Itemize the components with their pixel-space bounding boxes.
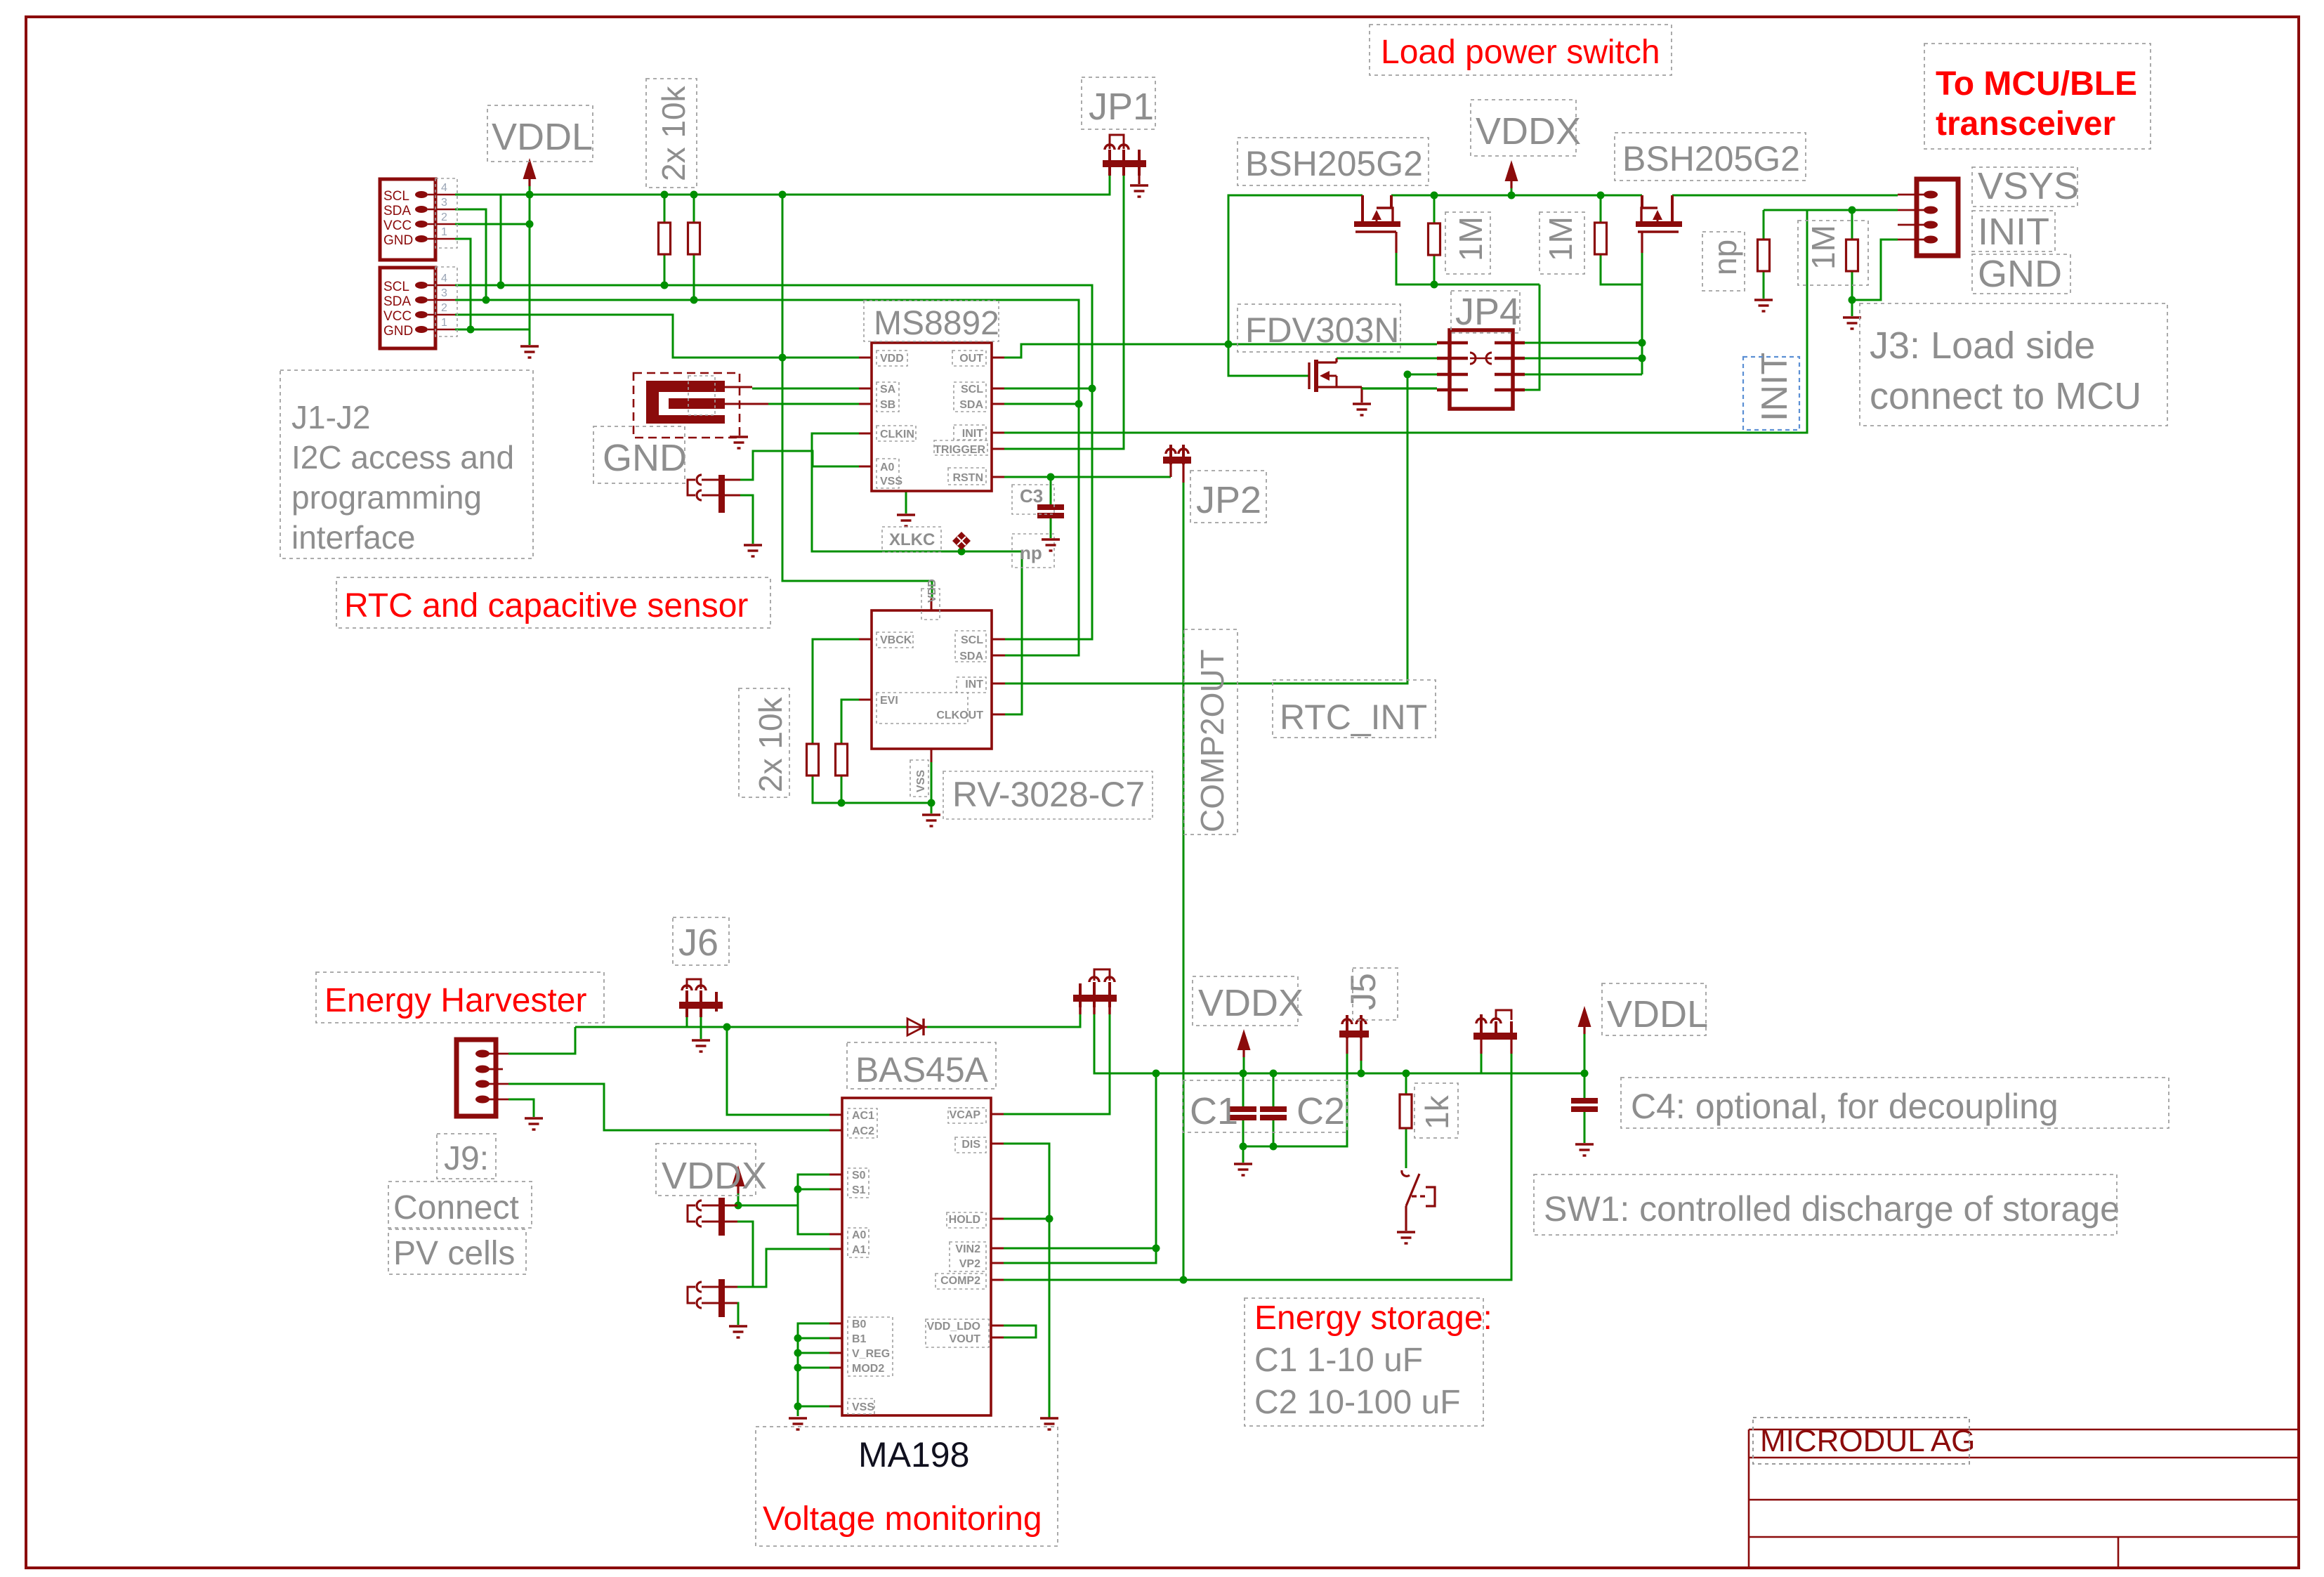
label 2x 10k RTC [739,688,789,797]
svg-text:PV cells: PV cells [393,1235,515,1272]
net flag XLKC diamond [882,527,971,552]
svg-text:Load power switch: Load power switch [1381,34,1660,71]
svg-text:INIT: INIT [962,428,983,440]
wire C2 bottom lead [1273,1118,1275,1146]
wire 1k top lead [1405,1073,1407,1094]
svg-text:1: 1 [441,317,447,329]
svg-text:JP4: JP4 [1455,291,1521,333]
wire VDDX arrow 3 stem [1243,1053,1245,1073]
svg-text:np: np [1020,542,1042,563]
svg-text:VDDL: VDDL [1607,993,1708,1035]
svg-text:VOUT: VOUT [950,1333,981,1345]
svg-text:VCC: VCC [383,309,412,324]
svg-text:SW1: controlled discharge of s: SW1: controlled discharge of storage [1544,1189,2120,1229]
svg-text:2x 10k: 2x 10k [752,696,789,792]
wire sensor SA to MS8892 SA [752,388,859,390]
svg-text:VBCK: VBCK [880,634,912,646]
wire C1 bottom lead [1242,1118,1245,1163]
label COMP2OUT [1184,629,1238,835]
svg-text:interface: interface [291,519,415,556]
wire MA198 MOD2 stub [798,1367,829,1369]
wire 1k bottom to SW1 [1405,1128,1407,1168]
label J1-J2 I2C access [280,370,533,558]
svg-text:1k: 1k [1419,1094,1455,1130]
svg-text:SDA: SDA [959,650,983,662]
wire C2 top lead [1273,1073,1275,1106]
wire VP2 tie to VIN2 [1004,1248,1156,1263]
label VDDL right [1602,983,1708,1035]
capacitor C3 [1012,485,1064,568]
label Load power switch [1370,25,1672,75]
wire MS8892 SCL stub [1004,388,1092,390]
jumper JP1 [1103,135,1146,184]
svg-text:programming: programming [291,479,482,516]
wire 1M R6 bottom to BSH2 gate vertical [1601,254,1642,284]
svg-text:V_REG: V_REG [852,1348,890,1360]
wire jumper JH right leg to MA198 VCAP [1004,1012,1110,1114]
wire J9 pin4 to ground [508,1099,534,1117]
svg-text:J5: J5 [1344,973,1383,1010]
ground JP1 [1130,185,1148,197]
wire C3 bottom lead [1050,517,1052,538]
svg-text:RSTN: RSTN [952,472,983,484]
resistor R7 np [1758,240,1770,271]
jumper J7 solder jumper [688,475,725,513]
svg-text:1M: 1M [1452,216,1489,261]
label VDDX storage [1193,976,1304,1026]
ground VDDL rail [520,346,539,358]
label np resistor [1702,232,1745,291]
supply arrow VDDX storage [1238,1029,1251,1057]
svg-text:J9:: J9: [444,1140,489,1177]
label C4 optional for decoupling [1621,1078,2169,1128]
svg-text:transceiver: transceiver [1936,105,2115,143]
wire RV-3028 EVI to 10k R4 [841,700,859,744]
label INIT J3 [1972,211,2055,253]
wire MS8892 VDD riser down to RV-3028 VDD [782,195,932,598]
wire 10k R2 bottom to SDA row [693,254,695,300]
wire 10k R1 top to VDDL rail [664,195,666,223]
wire MA198 VDD_LDO VOUT loop [1004,1326,1036,1337]
svg-text:2: 2 [441,211,447,223]
wire RV VSS stub to ground [931,762,933,813]
svg-text:VDDX: VDDX [1476,110,1581,152]
label J9 Connect PV cells [388,1134,532,1274]
wire J6 mid leg to ground [700,1017,702,1039]
wire 10k bottoms rail to RV VSS [813,776,931,803]
svg-text:JP2: JP2 [1196,479,1261,521]
wire MS8892 A0 to jumper [740,451,859,480]
wire 1M R6 top lead [1600,195,1602,223]
label 1k [1414,1083,1458,1138]
wire J1 VCC to VDDL vertical [455,223,530,225]
wire VDDL rail J1 pin4 to JP1 [455,174,1110,195]
label JP2 [1190,471,1266,523]
svg-text:RV-3028-C7: RV-3028-C7 [952,775,1145,814]
wire JP4 pin4 right [1525,358,1642,360]
supply arrow VDDX bottom left [732,1165,745,1193]
wire MS8892 TRIGGER up to JP1 pin2 [1004,174,1124,449]
ground FDV303N source [1353,404,1371,415]
wire jumper JH mid leg to VDDX bus [1094,1012,1584,1073]
transistor Q1 BSH205G2 [1354,195,1400,253]
wire 10k R2 top to VDDL rail [693,195,695,223]
connector J3 [1898,179,1958,256]
wire jumper JA pin2 link down [724,1222,753,1287]
ground MS8892 VSS [897,515,915,526]
title block [1749,1429,2297,1567]
jumper JP4 [1437,330,1525,409]
svg-text:VIN2: VIN2 [955,1243,980,1255]
label FDV303N [1238,304,1400,352]
IC U2 RV-3028-C7 [859,579,1005,797]
svg-text:1M: 1M [1805,225,1842,270]
wire J9 pin1 up to harvester row [508,1027,575,1054]
label C1 C2 [1183,1080,1347,1132]
svg-text:VDDX: VDDX [662,1155,767,1197]
wire diode cathode to J6b jumper pin1 [927,1012,1080,1027]
jumper J7 pin stubs [725,480,740,495]
wire VDDL2 arrow stem [1584,1034,1586,1073]
resistor R2 10k [688,223,700,254]
capacitor C2 [1260,1109,1287,1118]
ground J12 [729,1326,747,1337]
svg-text:MICRODUL AG: MICRODUL AG [1760,1424,1975,1458]
svg-text:BAS45A: BAS45A [855,1050,989,1089]
wire J2 GND row to ground [455,329,530,331]
svg-text:C4: optional, for decoupling: C4: optional, for decoupling [1631,1087,2059,1126]
label BAS45A [847,1042,996,1089]
label BSH205G2 first [1238,138,1429,185]
wire VDDL vertical to ground [529,179,531,345]
svg-text:COMP2OUT: COMP2OUT [1194,649,1230,832]
svg-text:SB: SB [880,399,895,411]
supply arrow VDDL right [1578,1006,1591,1034]
wire jumper JB pin2 to ground [724,1303,738,1325]
ground J9 pin4 [525,1118,543,1130]
svg-text:B0: B0 [852,1318,867,1330]
wire 1M R7 top lead from INIT [1851,210,1853,240]
label VDDL [487,105,593,162]
capacitive sensor electrode [633,373,768,438]
ground SW1 [1397,1232,1415,1243]
label J6 [673,917,729,965]
label JP1 [1082,77,1155,129]
svg-text:C1 1-10 uF: C1 1-10 uF [1254,1342,1423,1379]
svg-text:GND: GND [383,233,413,248]
wire RV-3028 INT RTC_INT run [1005,374,1437,683]
svg-text:RTC_INT: RTC_INT [1280,698,1427,737]
svg-text:VDD: VDD [880,353,904,365]
IC U1 MS8892 [859,343,1004,491]
svg-text:Energy Harvester: Energy Harvester [324,982,586,1019]
svg-text:SDA: SDA [383,294,411,309]
label J3 Load side connect to MCU [1860,303,2167,426]
net label INIT vertical [1743,353,1799,430]
wire VDDX arrow stem to rail [1511,188,1513,195]
svg-text:Energy storage:: Energy storage: [1254,1300,1492,1337]
ground jumper J7 [744,545,762,556]
wire MA198 AC1 up to harvester row [727,1027,829,1115]
wire MA198 HOLD stub [1004,1218,1049,1220]
resistor R8 1M [1846,240,1858,271]
wire BSH1 drain rail left segment [1228,195,1363,376]
svg-text:INIT: INIT [1754,353,1795,421]
resistor R4 10k [836,744,848,776]
diode D1 BAS45A [906,1019,927,1035]
wire jumper JB pin1 to MA198 A1 [724,1249,829,1287]
svg-text:CLKIN: CLKIN [880,428,914,440]
label MA198 name [756,1427,1058,1546]
jumper J5 [1339,1015,1369,1061]
svg-text:EVI: EVI [880,695,898,707]
wire JP4 right pins tie column [1525,342,1642,344]
svg-text:GND: GND [383,324,413,339]
wire VSYS rail right of BSH2 [1672,195,1898,197]
wire C4 top lead [1584,1073,1586,1098]
transistor Q2 BSH205G2 [1636,195,1682,253]
svg-text:XLKC: XLKC [889,530,935,549]
wire MS8892 RSTN to JP2 [1004,476,1171,478]
svg-text:np: np [1707,240,1743,275]
resistor R1 10k [659,223,671,254]
svg-text:A0: A0 [852,1229,867,1241]
ground C4 [1575,1144,1594,1156]
wire C1 top lead [1242,1073,1245,1106]
wire MA198 DIS down right side [1004,1144,1049,1418]
wire J1 GND down to J2 GND [455,239,471,329]
wire JP2 pin2 COMP2OUT vertical [1183,483,1185,1280]
label VSYS [1972,165,2079,207]
resistor R5 1M [1429,223,1440,255]
wire C3 hang from RSTN [1050,477,1052,506]
svg-text:I2C access and: I2C access and [291,439,514,476]
svg-text:MOD2: MOD2 [852,1363,884,1375]
wire MA198 VSS stub [798,1406,829,1408]
wire VDDX arrow to jumper JA [737,1192,740,1205]
wire jumper JA pin1 to MA198 A0 [724,1205,829,1234]
wire MA198 S1 stub [798,1189,829,1191]
label 1M second [1540,212,1584,274]
svg-text:COMP2: COMP2 [940,1275,980,1287]
svg-text:SA: SA [880,384,896,395]
wire sensor SB to MS8892 SB [768,403,859,405]
svg-text:2x 10k: 2x 10k [655,85,692,181]
wire np top lead [1763,210,1765,240]
wire harvester row J6 to diode [575,1026,906,1028]
svg-text:C3: C3 [1020,485,1043,506]
svg-text:B1: B1 [852,1333,867,1345]
svg-text:A0: A0 [880,462,895,473]
ground RV-3028 VSS [922,815,940,826]
transistor Q3 FDV303N [1309,358,1437,403]
wire 1M R5 bottom lead [1433,255,1436,284]
wire 10k R4 bottom [841,776,843,803]
label Energy Harvester [316,972,604,1023]
wire BSH2 gate down to JP4 right column [1641,253,1643,374]
connector J9 [457,1040,508,1116]
svg-text:4: 4 [441,273,447,284]
ground MA198 VSS [789,1418,807,1429]
wire RV-3028 VBCK to 10k R3 [813,639,859,744]
svg-text:VCAP: VCAP [950,1109,981,1121]
wire 10k R1 bottom to SCL row [664,254,666,285]
wire 1M R5 top lead [1433,195,1436,223]
ground C1 C2 [1234,1164,1252,1175]
svg-text:2: 2 [441,302,447,314]
svg-text:C1: C1 [1190,1090,1238,1132]
svg-text:SCL: SCL [961,634,983,646]
wire MA198 V_REG stub [798,1352,829,1354]
connector J1 [380,178,457,260]
ground J3 [1843,318,1861,329]
label Energy storage C1 C2 [1245,1298,1492,1426]
label RTC_INT [1273,680,1436,738]
resistor R3 10k [807,744,819,776]
svg-text:3: 3 [441,197,447,209]
label GND sensor [593,426,687,483]
svg-text:JP1: JP1 [1089,86,1154,128]
wire J9 pin3 to MA198 AC2 [508,1084,829,1130]
svg-text:MA198: MA198 [858,1435,969,1474]
wire MA198 B0 tie column [798,1323,829,1416]
switch SW1 [1402,1170,1435,1231]
wire MS8892 SDA stub [1004,403,1079,405]
connector J2 [380,267,457,348]
svg-text:J1-J2: J1-J2 [291,399,370,436]
wire np branch on INIT [1764,209,1807,211]
resistor R9 1k [1400,1094,1412,1128]
wire COMP2 row to right jumper [1004,1054,1511,1280]
jumper JP2 [1163,445,1191,483]
wire J3 GND pin4 to ground net [1852,240,1898,300]
svg-text:VDDX: VDDX [1198,982,1304,1024]
ground sensor [730,437,748,448]
wire right jumper pin1 to bus [1481,1054,1483,1073]
supply arrow VDDX [1505,160,1518,188]
svg-text:4: 4 [441,182,447,194]
wire J2 SCL row I2C SCL net [455,285,1092,639]
svg-text:TRIGGER: TRIGGER [934,444,985,456]
label GND J3 [1972,253,2070,295]
svg-text:BSH205G2: BSH205G2 [1245,144,1423,183]
label MS8892 [864,301,999,342]
wire FDV drain to JP4 pin3 [1337,358,1437,360]
wire MS8892 INIT to J3 INIT [1004,210,1898,433]
wire jumper J7 lower pin to ground [740,495,753,544]
wire J2 VCC to VDD riser [455,315,859,358]
label RV-3028-C7 [943,771,1153,819]
label 2x 10k top [646,79,697,188]
svg-text:SCL: SCL [961,384,983,395]
svg-text:VDD_LDO: VDD_LDO [927,1321,980,1333]
ground MA198 right [1040,1418,1058,1429]
jumper J6 [679,979,723,1017]
svg-text:3: 3 [441,287,447,299]
svg-text:J6: J6 [678,922,718,964]
svg-text:MS8892: MS8892 [874,305,999,342]
ground J6 [692,1040,710,1052]
jumper J10 harvester disconnect [1073,969,1117,1014]
svg-text:INT: INT [965,679,983,691]
svg-text:VP2: VP2 [959,1258,980,1270]
wire MS8892 OUT to FDV gate rail and JP4 pin1 [1004,344,1437,358]
jumper J12 A1 select [688,1279,725,1317]
ground np [1754,300,1773,311]
svg-text:AC2: AC2 [852,1125,874,1137]
svg-text:SDA: SDA [959,399,983,411]
svg-text:GND: GND [603,437,687,479]
wire XLKC stub dot [961,547,963,551]
svg-text:DIS: DIS [961,1139,980,1151]
svg-text:C2 10-100 uF: C2 10-100 uF [1254,1384,1461,1421]
ground C3 [1042,539,1060,551]
wire BSH1 gate down to 1M row [1396,253,1540,284]
label 1M first [1445,212,1490,274]
svg-text:SCL: SCL [383,280,409,294]
svg-text:OUT: OUT [959,353,983,365]
svg-text:1M: 1M [1542,216,1579,261]
svg-text:VSS: VSS [915,770,927,792]
svg-text:1: 1 [441,226,447,238]
svg-text:SDA: SDA [383,204,411,218]
label J5 [1344,968,1398,1020]
wire J6 left leg [686,1017,688,1027]
label SW1 controlled discharge of storage [1534,1174,2120,1235]
label JP4 [1451,291,1521,333]
svg-text:VCC: VCC [383,218,412,233]
wire VSYS rail right of BSH1 [1391,195,1642,197]
wire storage bottom rail to J5 pin1 [1243,1054,1347,1146]
wire VIN2 riser to bus [1004,1073,1156,1248]
jumper J13 load disconnect [1473,1010,1517,1054]
resistor R6 1M [1595,223,1607,254]
wire MS8892 bottom VSS stub [905,491,907,513]
label To MCU BLE transceiver [1924,44,2151,149]
svg-text:FDV303N: FDV303N [1245,310,1400,350]
label VDDX top [1471,100,1581,156]
svg-text:SCL: SCL [383,189,409,204]
svg-text:J3: Load side: J3: Load side [1870,325,2095,367]
svg-text:Voltage monitoring: Voltage monitoring [763,1500,1042,1538]
svg-text:AC1: AC1 [852,1110,874,1122]
svg-text:A1: A1 [852,1244,867,1256]
label 1M third [1798,221,1868,285]
jumper J11 A0 select [688,1198,725,1236]
label VDDX MA198 [656,1144,767,1197]
wire J1 SDA down to J2 SDA [455,209,486,300]
svg-text:VDDL: VDDL [492,116,593,158]
wire 1M R7 bottom lead [1851,271,1853,316]
svg-text:To MCU/BLE: To MCU/BLE [1936,65,2137,103]
wire C4 bottom lead [1584,1109,1586,1143]
capacitor C4 [1571,1101,1598,1109]
wire drain row down to JP4 right row4 [1525,284,1540,390]
wire MA198 S0 S1 tie [798,1174,829,1205]
svg-text:INIT: INIT [1978,211,2049,253]
supply arrow VDDL [523,158,537,186]
jumper J11 J12 pin stubs [725,1205,737,1303]
svg-text:BSH205G2: BSH205G2 [1622,139,1800,178]
IC U3 MA198 [829,1098,1004,1415]
wire MA198 B1 stub [798,1337,829,1340]
svg-text:S1: S1 [852,1184,866,1196]
label RTC and capacitive sensor [336,577,770,628]
svg-text:VSYS: VSYS [1978,165,2079,207]
svg-text:C2: C2 [1296,1090,1345,1132]
wire np bottom lead [1763,271,1765,299]
wire J2 SDA row I2C SDA net [455,300,1079,655]
